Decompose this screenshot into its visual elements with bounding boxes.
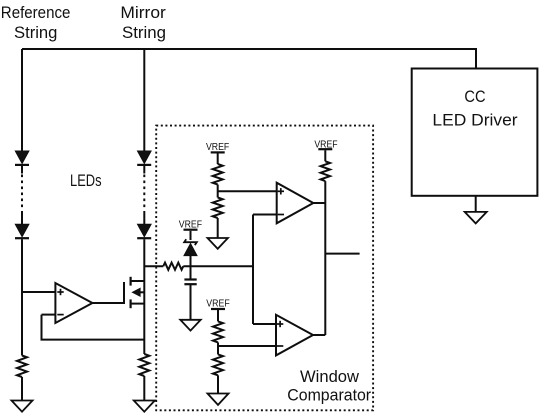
transistor Q1 (NMOS) bbox=[124, 277, 144, 308]
svg-text:CC: CC bbox=[464, 87, 485, 106]
resistor R3 (filter) bbox=[163, 263, 183, 270]
svg-text:String: String bbox=[122, 23, 166, 42]
resistor R8 (lower divider bottom) bbox=[213, 354, 223, 375]
op-amp U2 (upper comparator) bbox=[277, 183, 314, 224]
wire comparator input column bbox=[252, 215, 254, 325]
label Reference String bbox=[1, 3, 71, 42]
wire mirror string to MOSFET drain and source column bbox=[143, 239, 145, 354]
node VREF (clamp supply bar) bbox=[184, 230, 198, 240]
wire bbox=[217, 375, 219, 393]
resistor R4 (upper divider top) bbox=[213, 164, 223, 185]
svg-text:VREF: VREF bbox=[179, 218, 202, 230]
wire lower comparator output bbox=[313, 334, 325, 336]
wire to bottom comparator noninverting input bbox=[253, 323, 276, 325]
block CC LED Driver bbox=[412, 69, 538, 196]
wire op-amp noninverting input bbox=[22, 291, 55, 293]
label CC LED Driver bbox=[432, 87, 518, 129]
svg-text:Comparator: Comparator bbox=[287, 385, 371, 404]
wire reference string upper segment bbox=[21, 49, 23, 152]
wire bbox=[21, 211, 23, 224]
wire upper threshold tap bbox=[218, 190, 277, 192]
node VREF (upper divider supply bar) bbox=[211, 152, 225, 164]
op-amp U1 bbox=[55, 283, 92, 323]
wire divider mid segment bbox=[217, 185, 219, 198]
wire upper comparator output bbox=[313, 202, 325, 204]
wire CC LED driver ground stem bbox=[475, 196, 477, 212]
svg-text:VREF: VREF bbox=[206, 141, 229, 153]
ground (CC LED driver) bbox=[465, 212, 487, 224]
wire mirror string upper segment bbox=[143, 49, 145, 152]
node VREF (pull-up supply bar) bbox=[318, 149, 332, 161]
capacitor C1 bbox=[184, 280, 196, 285]
svg-text:Reference: Reference bbox=[1, 3, 71, 22]
resistor R6 (pull-up) bbox=[321, 161, 330, 181]
LED D2 bbox=[15, 224, 29, 238]
wire feedback to source bbox=[42, 315, 145, 340]
wire bbox=[143, 211, 145, 224]
wire bbox=[21, 166, 23, 174]
wire bbox=[143, 166, 145, 174]
wire op-amp inverting input bbox=[42, 314, 56, 316]
wire output column bbox=[324, 181, 326, 335]
resistor R1 (reference string sense) bbox=[17, 356, 27, 378]
resistor R5 (upper divider bottom) bbox=[213, 198, 223, 219]
wire bbox=[190, 285, 192, 320]
op-amp U3 (lower comparator) bbox=[276, 315, 313, 356]
svg-text:LED Driver: LED Driver bbox=[432, 110, 518, 129]
svg-text:Mirror: Mirror bbox=[120, 3, 166, 22]
wire bbox=[143, 376, 145, 401]
ground (upper divider) bbox=[208, 238, 228, 249]
ground (filter capacitor) bbox=[180, 320, 200, 331]
wire bbox=[21, 377, 23, 401]
diode D5 (zener clamp) bbox=[184, 239, 197, 255]
wire node to capacitor bbox=[190, 266, 192, 278]
svg-text:VREF: VREF bbox=[206, 298, 230, 310]
svg-text:LEDs: LEDs bbox=[70, 171, 102, 190]
wire op-amp output to gate bbox=[92, 302, 124, 304]
wire divider mid segment bbox=[217, 342, 219, 354]
wire dotted LED continuation (reference string) bbox=[21, 175, 23, 211]
svg-text:Window: Window bbox=[300, 367, 360, 386]
ground (reference string) bbox=[12, 401, 33, 412]
wire top supply rail bbox=[22, 49, 476, 69]
node VREF (lower divider supply bar) bbox=[211, 309, 225, 321]
wire zener anode to node bbox=[190, 256, 192, 267]
window comparator boundary (dotted box) bbox=[156, 126, 373, 411]
wire bbox=[217, 218, 219, 238]
LED D3 bbox=[137, 151, 151, 165]
wire filter node to comparator input column bbox=[183, 265, 253, 267]
LED D1 bbox=[15, 151, 29, 165]
label Window Comparator bbox=[287, 367, 371, 404]
wire lower threshold tap bbox=[218, 345, 276, 347]
resistor R2 (mirror string sense) bbox=[139, 354, 149, 376]
label Mirror String bbox=[120, 3, 166, 42]
LED D4 bbox=[137, 224, 151, 238]
wire reference string lower segment bbox=[21, 239, 23, 355]
wire drain node to sense resistor bbox=[144, 265, 163, 267]
wire dotted LED continuation (mirror string) bbox=[143, 175, 145, 211]
svg-text:String: String bbox=[14, 23, 57, 42]
wire to top comparator inverting input bbox=[253, 214, 277, 216]
ground (lower divider) bbox=[208, 394, 229, 405]
ground (mirror string) bbox=[134, 401, 155, 412]
wire comparator output stub bbox=[325, 253, 359, 255]
resistor R7 (lower divider top) bbox=[213, 321, 223, 342]
